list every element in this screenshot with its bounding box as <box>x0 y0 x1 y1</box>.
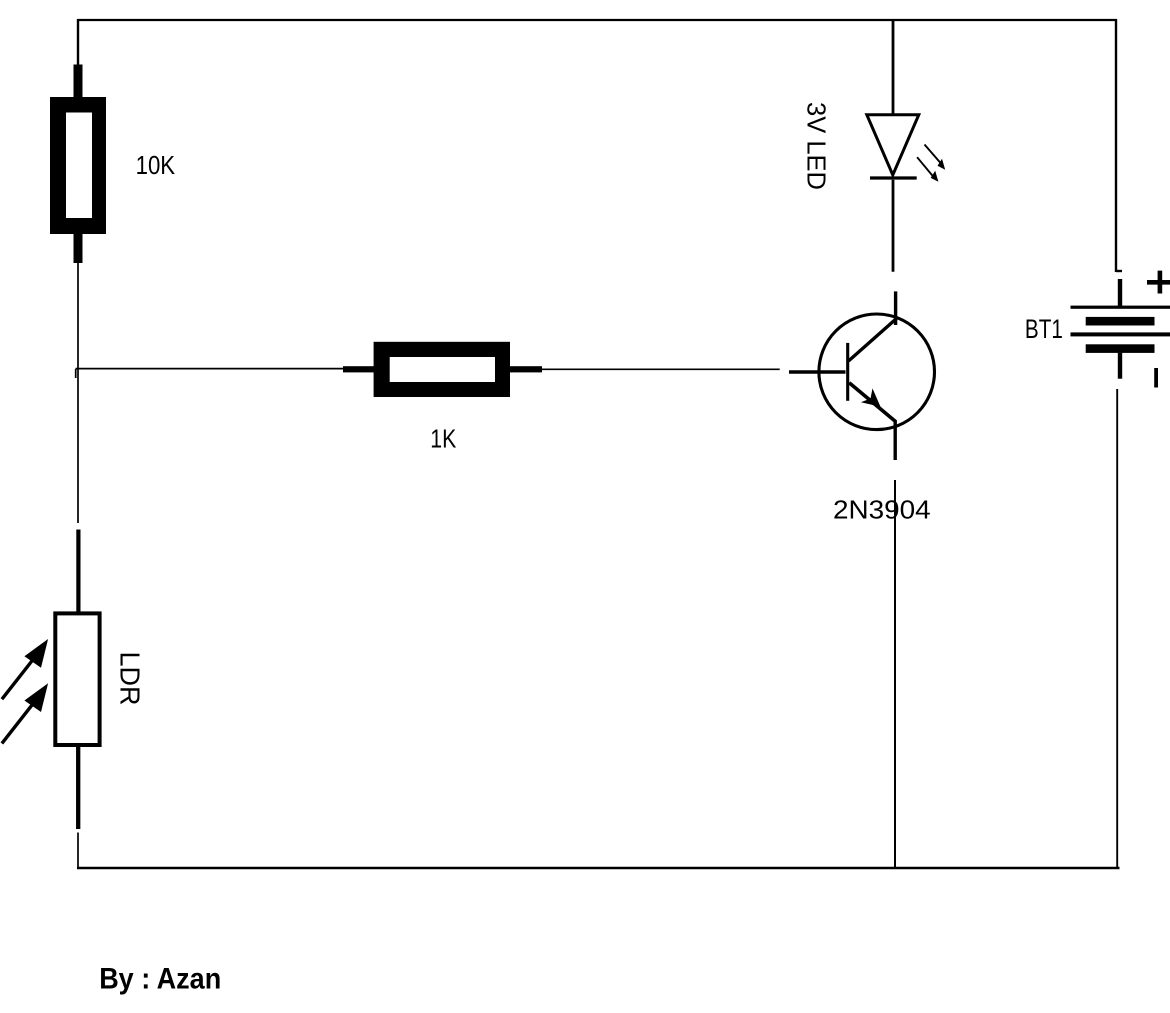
svg-text:By : Azan: By : Azan <box>99 962 221 995</box>
svg-text:10K: 10K <box>136 150 176 180</box>
svg-text:LDR: LDR <box>115 652 146 706</box>
svg-text:2N3904: 2N3904 <box>833 495 931 525</box>
svg-text:3V LED: 3V LED <box>802 102 832 190</box>
svg-text:1K: 1K <box>430 423 457 453</box>
svg-text:BT1: BT1 <box>1025 314 1063 344</box>
